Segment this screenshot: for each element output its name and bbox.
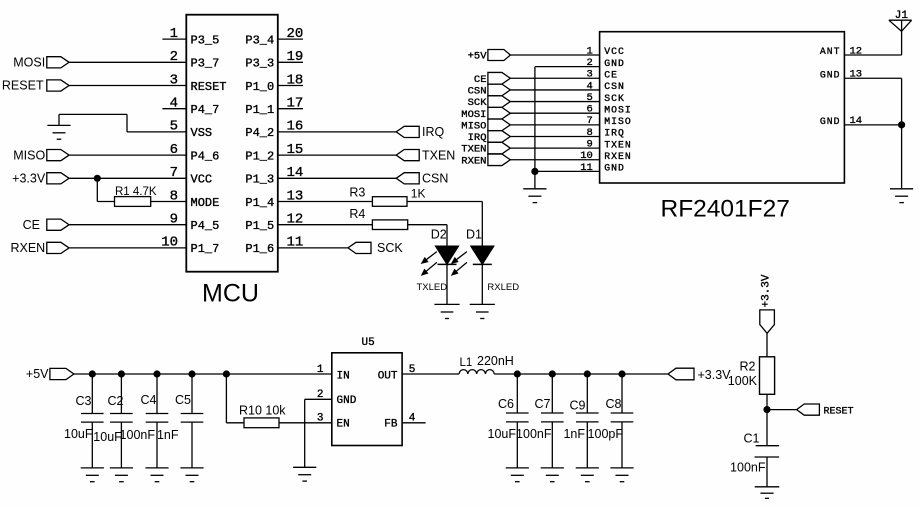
svg-text:+3.3V: +3.3V — [698, 368, 732, 382]
svg-text:100K: 100K — [728, 374, 758, 388]
svg-text:C9: C9 — [570, 399, 586, 413]
svg-text:R1 4.7K: R1 4.7K — [115, 186, 157, 198]
svg-text:D2: D2 — [431, 228, 447, 242]
svg-text:U5: U5 — [362, 337, 375, 349]
svg-text:CE: CE — [604, 69, 618, 80]
svg-text:+5V: +5V — [26, 367, 49, 381]
svg-text:GND: GND — [337, 395, 357, 407]
svg-text:TXEN: TXEN — [422, 148, 455, 162]
svg-text:CSN: CSN — [422, 172, 448, 186]
svg-text:MOSI: MOSI — [604, 104, 632, 115]
svg-text:R3: R3 — [349, 185, 365, 199]
svg-text:RXEN: RXEN — [461, 155, 486, 167]
svg-text:C3: C3 — [76, 394, 92, 408]
svg-text:C2: C2 — [108, 394, 124, 408]
svg-text:P1_6: P1_6 — [245, 242, 274, 256]
svg-text:+3.3V: +3.3V — [760, 274, 772, 307]
svg-text:FB: FB — [384, 419, 398, 431]
svg-text:MODE: MODE — [191, 196, 220, 210]
svg-text:R4: R4 — [349, 207, 365, 221]
svg-text:CE: CE — [23, 218, 40, 232]
svg-text:3: 3 — [317, 412, 324, 424]
svg-text:220nH: 220nH — [477, 354, 514, 368]
svg-text:CSN: CSN — [468, 86, 487, 98]
svg-text:IN: IN — [337, 370, 350, 382]
svg-text:VCC: VCC — [191, 173, 213, 187]
svg-text:1nF: 1nF — [563, 427, 585, 441]
svg-text:ANT: ANT — [820, 46, 841, 57]
svg-text:TXEN: TXEN — [604, 139, 632, 150]
svg-text:P1_0: P1_0 — [245, 80, 274, 94]
svg-text:CSN: CSN — [604, 81, 625, 92]
svg-text:P4_5: P4_5 — [191, 219, 220, 233]
svg-text:SCK: SCK — [604, 93, 625, 104]
svg-text:P3_4: P3_4 — [245, 33, 274, 47]
svg-text:IRQ: IRQ — [468, 132, 487, 144]
svg-text:GND: GND — [604, 58, 625, 69]
svg-text:OUT: OUT — [378, 370, 398, 382]
svg-text:10uF: 10uF — [64, 427, 93, 441]
svg-text:SCK: SCK — [377, 241, 403, 255]
svg-text:P1_4: P1_4 — [245, 196, 274, 210]
svg-text:IRQ: IRQ — [422, 125, 445, 139]
svg-text:100pF: 100pF — [588, 427, 624, 441]
svg-text:P3_5: P3_5 — [191, 33, 220, 47]
svg-text:TXEN: TXEN — [461, 144, 486, 156]
svg-text:RXEN: RXEN — [604, 151, 632, 162]
svg-text:C4: C4 — [141, 393, 157, 407]
svg-text:P1_5: P1_5 — [245, 219, 274, 233]
svg-text:VSS: VSS — [191, 126, 213, 140]
svg-text:VCC: VCC — [604, 46, 625, 57]
svg-text:C1: C1 — [744, 432, 760, 446]
svg-text:IRQ: IRQ — [604, 128, 625, 139]
svg-text:CE: CE — [474, 74, 487, 86]
svg-text:MISO: MISO — [604, 116, 632, 127]
svg-text:GND: GND — [820, 69, 841, 80]
svg-text:C8: C8 — [606, 397, 622, 411]
svg-text:RF2401F27: RF2401F27 — [661, 196, 790, 223]
svg-text:MOSI: MOSI — [13, 56, 45, 70]
svg-text:C6: C6 — [498, 397, 514, 411]
svg-text:EN: EN — [337, 419, 350, 431]
svg-text:100nF: 100nF — [120, 428, 156, 442]
svg-text:R2: R2 — [740, 360, 756, 374]
svg-text:MISO: MISO — [13, 148, 45, 162]
svg-text:100nF: 100nF — [516, 427, 552, 441]
svg-text:C7: C7 — [535, 397, 551, 411]
svg-text:P4_6: P4_6 — [191, 149, 220, 163]
svg-text:P4_2: P4_2 — [245, 126, 274, 140]
svg-text:RESET: RESET — [824, 407, 854, 418]
svg-text:MISO: MISO — [461, 120, 486, 132]
svg-text:10uF: 10uF — [488, 427, 517, 441]
svg-text:MCU: MCU — [202, 280, 259, 308]
svg-text:C5: C5 — [175, 393, 191, 407]
svg-text:R10 10k: R10 10k — [239, 404, 286, 418]
svg-text:1: 1 — [317, 364, 324, 376]
svg-text:P3_3: P3_3 — [245, 57, 274, 71]
svg-text:100nF: 100nF — [730, 461, 766, 475]
svg-text:J1: J1 — [895, 10, 909, 22]
svg-text:+5V: +5V — [468, 51, 488, 63]
svg-text:L1: L1 — [460, 357, 473, 369]
svg-text:RXLED: RXLED — [487, 282, 519, 293]
svg-text:RESET: RESET — [191, 80, 227, 94]
svg-text:TXLED: TXLED — [417, 282, 448, 293]
svg-text:P1_3: P1_3 — [245, 173, 274, 187]
svg-text:MOSI: MOSI — [461, 109, 486, 121]
svg-text:GND: GND — [820, 116, 841, 127]
svg-text:P3_7: P3_7 — [191, 57, 220, 71]
svg-text:RESET: RESET — [2, 79, 44, 93]
svg-text:P1_7: P1_7 — [191, 242, 220, 256]
svg-text:D1: D1 — [466, 228, 482, 242]
svg-text:GND: GND — [604, 163, 625, 174]
svg-text:P1_1: P1_1 — [245, 103, 274, 117]
svg-text:10uF: 10uF — [93, 430, 122, 444]
svg-text:SCK: SCK — [468, 97, 488, 109]
svg-text:RXEN: RXEN — [10, 241, 45, 255]
svg-text:+3.3V: +3.3V — [12, 172, 46, 186]
svg-text:P4_7: P4_7 — [191, 103, 220, 117]
svg-text:1nF: 1nF — [157, 428, 179, 442]
svg-text:P1_2: P1_2 — [245, 149, 274, 163]
svg-text:1K: 1K — [411, 186, 426, 200]
